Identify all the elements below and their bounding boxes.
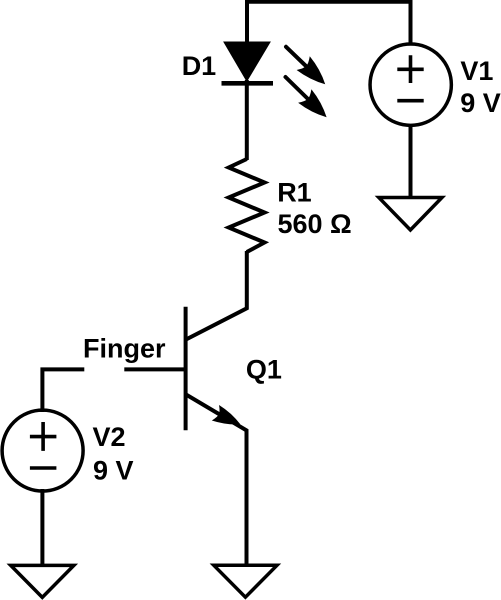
svg-text:D1: D1 — [182, 51, 217, 81]
svg-text:V2: V2 — [93, 422, 126, 452]
svg-text:Finger: Finger — [83, 333, 166, 363]
svg-text:560 Ω: 560 Ω — [278, 209, 352, 239]
svg-text:Q1: Q1 — [246, 354, 282, 384]
svg-text:9 V: 9 V — [93, 456, 134, 486]
svg-text:V1: V1 — [460, 56, 493, 86]
svg-text:9 V: 9 V — [460, 88, 501, 118]
svg-text:R1: R1 — [277, 177, 312, 207]
